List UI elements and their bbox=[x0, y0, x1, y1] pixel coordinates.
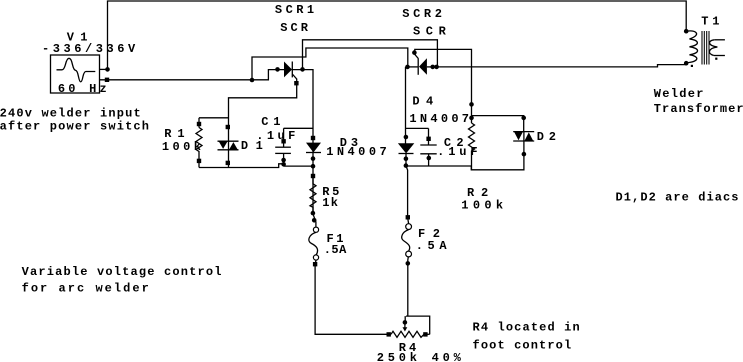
svg-text:.5A: .5A bbox=[416, 239, 448, 253]
svg-text:.5A: .5A bbox=[324, 243, 347, 257]
svg-text:240v welder input: 240v welder input bbox=[0, 107, 141, 121]
svg-text:1k: 1k bbox=[322, 196, 338, 210]
svg-text:SCR: SCR bbox=[413, 25, 447, 39]
svg-text:foot control: foot control bbox=[473, 338, 572, 352]
svg-text:after power switch: after power switch bbox=[0, 120, 149, 134]
svg-text:Transformer: Transformer bbox=[654, 102, 743, 116]
svg-text:SCR: SCR bbox=[280, 21, 309, 35]
svg-text:-336/336V: -336/336V bbox=[42, 42, 136, 56]
svg-text:R4 located in: R4 located in bbox=[473, 321, 580, 335]
svg-text:D1,D2 are diacs: D1,D2 are diacs bbox=[616, 191, 739, 205]
svg-text:Variable voltage control: Variable voltage control bbox=[22, 265, 222, 279]
